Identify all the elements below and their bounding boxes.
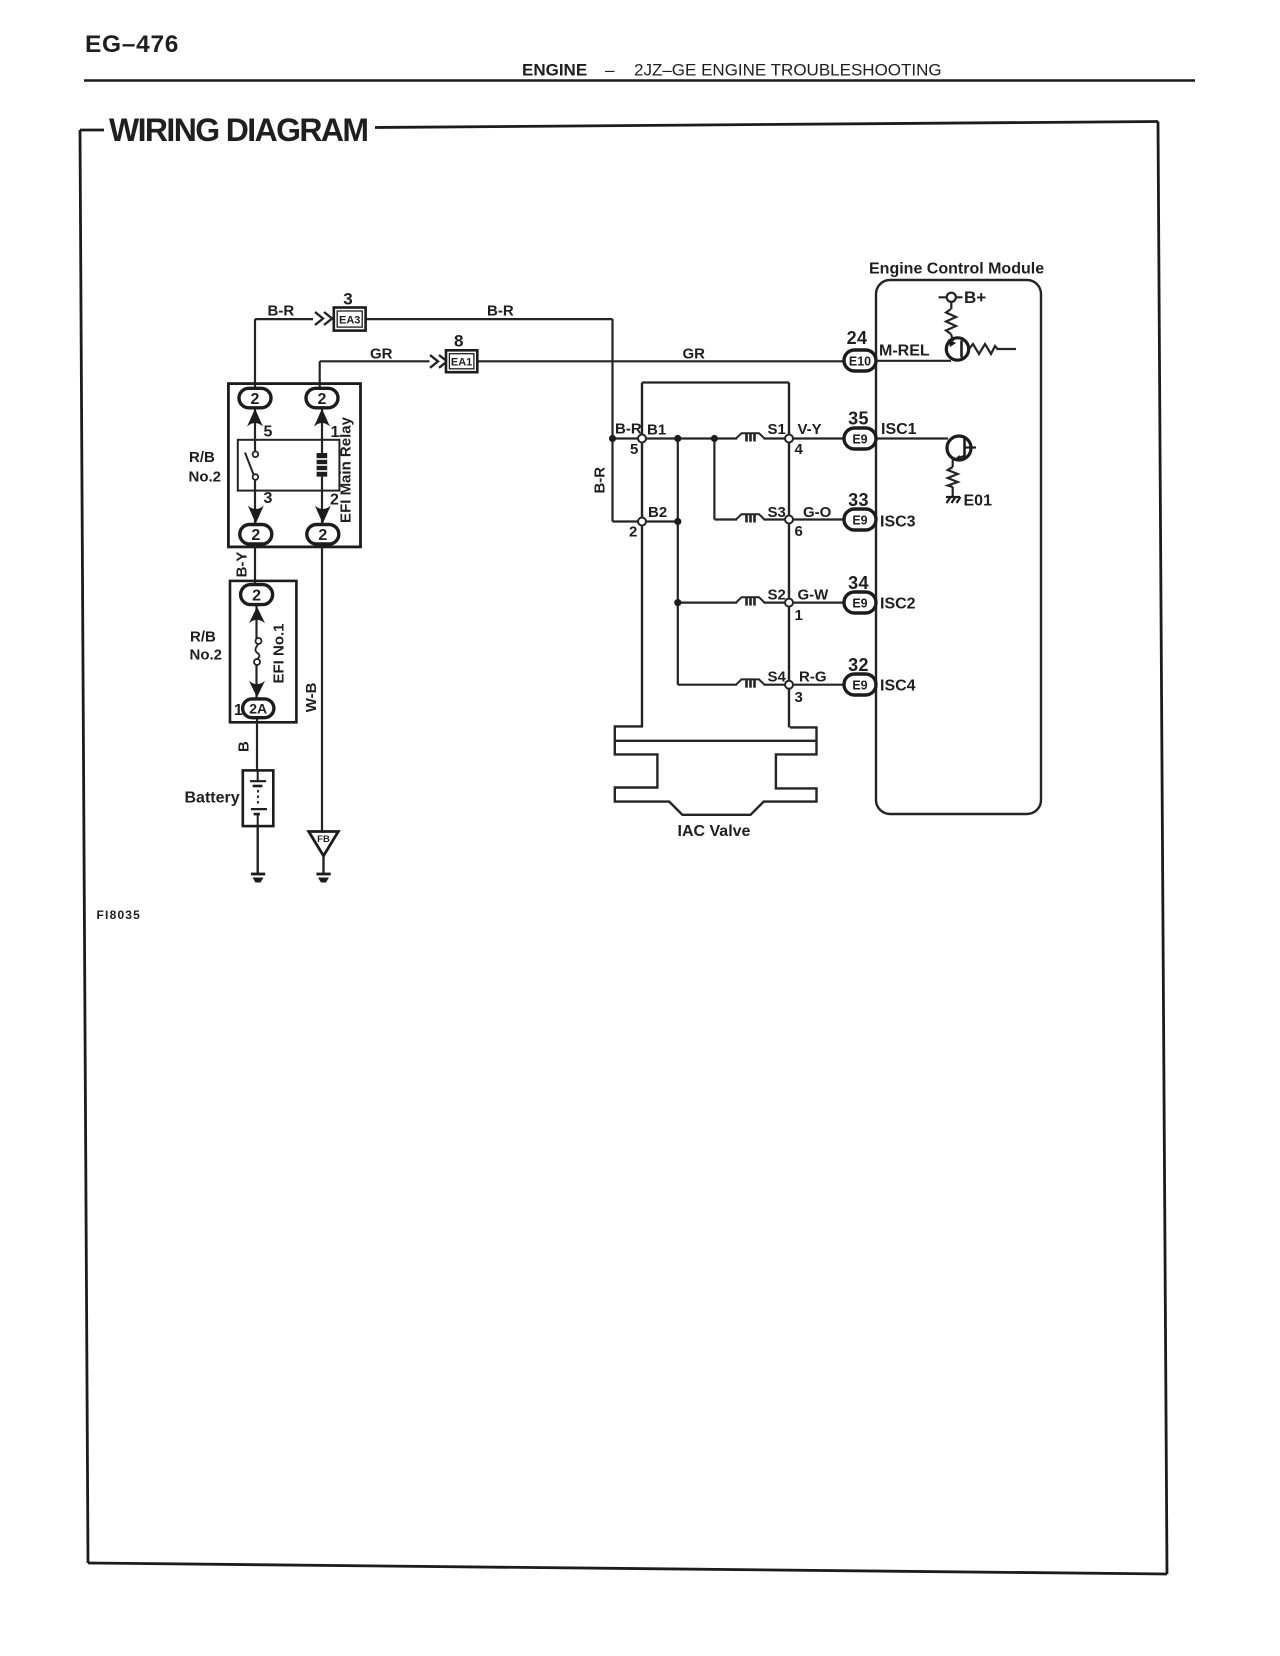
svg-text:EA1: EA1 (451, 357, 472, 369)
svg-text:ISC3: ISC3 (880, 514, 916, 531)
svg-text:2: 2 (318, 391, 327, 408)
svg-text:6: 6 (795, 523, 803, 540)
svg-text:V-Y: V-Y (798, 421, 822, 438)
svg-text:E9: E9 (852, 679, 867, 693)
svg-text:WIRING DIAGRAM: WIRING DIAGRAM (109, 112, 367, 148)
svg-text:IAC Valve: IAC Valve (678, 823, 751, 840)
svg-text:B-R: B-R (592, 467, 609, 494)
svg-text:2: 2 (251, 391, 260, 408)
svg-text:EFI Main Relay: EFI Main Relay (338, 416, 355, 523)
svg-text:E10: E10 (849, 355, 871, 369)
svg-text:R/B: R/B (190, 629, 216, 646)
svg-text:35: 35 (848, 409, 869, 429)
svg-text:2: 2 (629, 524, 637, 541)
svg-text:FI8035: FI8035 (97, 908, 142, 922)
svg-text:GR: GR (683, 346, 706, 363)
svg-text:5: 5 (630, 441, 638, 458)
svg-text:ENGINE–2JZ–GE ENGINE TROUBLESH: ENGINE–2JZ–GE ENGINE TROUBLESHOOTING (522, 61, 942, 80)
svg-text:1: 1 (234, 702, 243, 719)
svg-text:33: 33 (848, 490, 869, 510)
svg-text:GR: GR (370, 346, 393, 363)
svg-text:E9: E9 (852, 433, 867, 447)
svg-text:2A: 2A (249, 701, 267, 717)
svg-text:34: 34 (848, 573, 869, 593)
svg-text:No.2: No.2 (189, 469, 222, 486)
svg-text:32: 32 (848, 655, 869, 675)
svg-text:S2: S2 (768, 587, 786, 604)
svg-text:3: 3 (343, 290, 352, 309)
svg-text:M-REL: M-REL (879, 343, 930, 360)
svg-text:3: 3 (795, 689, 803, 706)
svg-text:Battery: Battery (185, 790, 240, 807)
svg-text:B1: B1 (647, 422, 666, 439)
svg-text:FB: FB (317, 834, 330, 845)
svg-text:E9: E9 (852, 514, 867, 528)
svg-text:24: 24 (847, 328, 868, 348)
svg-text:G-W: G-W (798, 587, 830, 604)
svg-text:Engine Control Module: Engine Control Module (869, 261, 1044, 278)
svg-text:5: 5 (264, 424, 273, 441)
svg-text:No.2: No.2 (190, 647, 223, 664)
svg-text:EFI No.1: EFI No.1 (271, 623, 288, 683)
svg-text:EG–476: EG–476 (85, 31, 179, 58)
svg-text:4: 4 (795, 441, 804, 458)
svg-text:8: 8 (454, 332, 463, 351)
svg-text:EA3: EA3 (339, 315, 360, 327)
svg-text:1: 1 (795, 607, 803, 624)
svg-text:2: 2 (252, 587, 261, 604)
svg-text:W-B: W-B (303, 682, 320, 712)
svg-text:B+: B+ (964, 288, 986, 307)
svg-text:2: 2 (251, 527, 260, 544)
svg-text:S1: S1 (768, 421, 786, 438)
svg-text:ISC2: ISC2 (880, 596, 916, 613)
svg-text:ISC1: ISC1 (881, 421, 917, 438)
svg-text:ISC4: ISC4 (880, 678, 916, 695)
svg-text:B-R: B-R (268, 303, 295, 320)
svg-text:S4: S4 (768, 669, 787, 686)
svg-text:2: 2 (318, 527, 327, 544)
svg-text:B-R: B-R (615, 421, 642, 438)
svg-text:B2: B2 (648, 504, 667, 521)
svg-text:G-O: G-O (803, 504, 832, 521)
svg-text:B-Y: B-Y (233, 552, 250, 578)
svg-text:B: B (236, 741, 253, 752)
svg-text:R/B: R/B (189, 449, 215, 466)
svg-text:E9: E9 (852, 597, 867, 611)
svg-text:S3: S3 (768, 504, 786, 521)
svg-text:B-R: B-R (487, 303, 514, 320)
svg-text:3: 3 (264, 490, 273, 507)
svg-text:E01: E01 (964, 493, 993, 510)
svg-text:R-G: R-G (799, 669, 827, 686)
